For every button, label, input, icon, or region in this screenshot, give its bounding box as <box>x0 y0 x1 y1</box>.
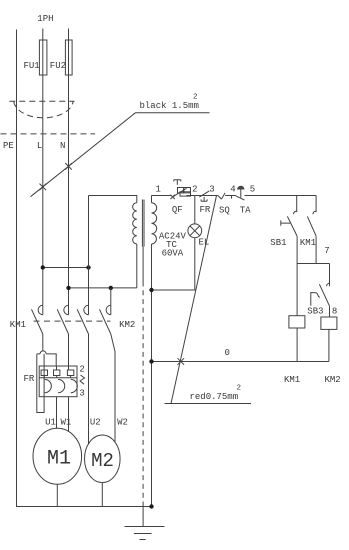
svg-text:QF: QF <box>172 205 183 215</box>
svg-text:5: 5 <box>250 185 255 195</box>
contact KM1 pole1 <box>32 305 43 334</box>
svg-text:KM1: KM1 <box>10 320 26 330</box>
svg-text:PE: PE <box>3 141 14 151</box>
transformer shield lead solid <box>142 247 144 282</box>
svg-text:60VA: 60VA <box>162 249 184 259</box>
svg-text:L: L <box>37 141 42 151</box>
wire pole1 down <box>42 334 44 351</box>
svg-text:FR: FR <box>24 374 35 384</box>
svg-text:3: 3 <box>209 185 214 195</box>
svg-text:M2: M2 <box>91 450 114 472</box>
ground <box>125 527 165 540</box>
hop arc over L <box>40 351 46 354</box>
wire KM1 coil branch <box>296 264 298 316</box>
wire pole3 down to M2 <box>88 334 90 444</box>
wire KM1 aux bottom <box>315 236 317 263</box>
wire L to transformer primary <box>43 267 89 269</box>
transformer TC secondary top lead <box>151 196 153 203</box>
wire L line top <box>42 29 44 315</box>
junction dot 0 rail <box>149 359 153 363</box>
wire SB1 branch top <box>296 196 298 213</box>
lamp EL <box>188 224 202 238</box>
thermal relay FR box <box>39 366 77 397</box>
motor M2 <box>85 435 121 483</box>
wire N line top <box>68 29 70 315</box>
contact KM2 pole1 <box>77 305 88 334</box>
junction dot N branch <box>66 286 70 290</box>
svg-text:8: 8 <box>332 307 337 317</box>
svg-text:KM2: KM2 <box>119 320 135 330</box>
wire EL branch <box>194 196 196 224</box>
contact KM1 pole2 <box>57 305 68 334</box>
wire U1 <box>56 397 58 429</box>
svg-text:FR: FR <box>200 205 211 215</box>
wire node7 <box>297 263 329 265</box>
dashed separator upper <box>9 100 74 102</box>
svg-text:KM1: KM1 <box>284 375 300 385</box>
transformer TC secondary winding <box>152 203 157 244</box>
svg-text:7: 7 <box>324 246 329 256</box>
wire N to transformer primary <box>69 287 137 289</box>
svg-text:SB1: SB1 <box>270 238 286 248</box>
coil KM2 <box>321 317 337 329</box>
breaker QF <box>170 195 174 199</box>
wire branch3 vertical <box>88 196 90 315</box>
wire EL return <box>152 238 195 290</box>
wire KM1 coil bottom <box>296 328 298 362</box>
wire W1 <box>68 397 70 432</box>
svg-text:TA: TA <box>240 206 251 216</box>
svg-text:red0.75mm: red0.75mm <box>190 392 239 402</box>
svg-text:M1: M1 <box>47 448 71 471</box>
transformer TC primary lead <box>89 196 137 203</box>
transformer TC primary bottom lead <box>136 244 138 288</box>
wire SB1 bottom <box>296 236 298 263</box>
button TA <box>237 186 244 190</box>
svg-text:FU1: FU1 <box>24 61 40 71</box>
FR trip squiggle <box>80 375 85 384</box>
contact KM1 aux <box>313 211 316 214</box>
junction dot branch4 <box>109 286 113 290</box>
svg-text:4: 4 <box>230 185 235 195</box>
fuse FU2 <box>65 40 72 75</box>
contact KM2 pole2 <box>100 305 111 334</box>
mechanical link dashed <box>34 320 111 322</box>
svg-text:KM1: KM1 <box>300 238 316 248</box>
transformer TC core <box>142 200 144 247</box>
wire KM1 aux branch top <box>315 196 317 213</box>
svg-text:SQ: SQ <box>219 206 230 216</box>
contact SQ <box>218 193 225 199</box>
wire SB3 bottom <box>329 306 331 317</box>
crossing mark on L wire <box>40 184 47 191</box>
wire branch4 vertical <box>110 288 112 315</box>
earth lead <box>142 507 144 527</box>
svg-text:3: 3 <box>79 389 84 399</box>
junction dot primary feed <box>86 265 90 269</box>
svg-text:W1: W1 <box>61 417 72 427</box>
svg-text:EL: EL <box>199 238 210 248</box>
wire KM2 coil bottom <box>328 329 330 361</box>
crossing mark on 0 rail <box>178 358 185 365</box>
crossing mark on N wire <box>65 163 72 170</box>
svg-text:W2: W2 <box>117 418 128 428</box>
svg-text:1: 1 <box>156 185 161 195</box>
wire M1 bottom <box>56 484 58 506</box>
wire control rung top <box>152 195 317 197</box>
coil KM1 <box>289 316 305 328</box>
fuse FU1 <box>39 40 47 75</box>
svg-text:0: 0 <box>225 348 230 358</box>
svg-text:2: 2 <box>193 94 198 102</box>
svg-text:2: 2 <box>192 185 197 195</box>
motor M1 <box>33 428 82 484</box>
wire PE line <box>17 30 152 507</box>
wire pole4 down to M2 <box>111 334 115 442</box>
leader line black wire <box>31 113 136 197</box>
wire pole2 down <box>68 334 70 366</box>
thermal relay FR heater1 <box>37 354 56 413</box>
junction dot EL return <box>149 288 153 292</box>
svg-text:N: N <box>60 141 65 151</box>
svg-text:black 1.5mm: black 1.5mm <box>140 101 199 111</box>
dashed separator lower <box>1 133 96 135</box>
svg-text:2: 2 <box>237 385 242 393</box>
junction dot L branch <box>41 265 45 269</box>
wire M2 bottom <box>101 483 103 507</box>
svg-text:FU2: FU2 <box>50 61 66 71</box>
button SB3 <box>327 283 330 286</box>
cable arc <box>14 102 73 118</box>
junction dot secondary to PE <box>149 504 153 508</box>
button SB1 <box>294 211 297 214</box>
svg-text:SB3: SB3 <box>307 307 323 317</box>
wire 0 rail <box>152 361 329 363</box>
svg-text:KM2: KM2 <box>325 375 341 385</box>
svg-text:1PH: 1PH <box>37 14 53 24</box>
transformer TC primary winding <box>133 203 137 244</box>
transformer shield lead dashed <box>142 282 144 507</box>
svg-text:U1: U1 <box>45 417 56 427</box>
transformer TC secondary return lead <box>151 244 153 507</box>
svg-text:U2: U2 <box>90 418 101 428</box>
leader line red wire <box>165 196 252 404</box>
svg-text:2: 2 <box>79 365 84 375</box>
contact FR (NC thermal) <box>199 191 209 197</box>
FR heater elements <box>41 370 47 376</box>
wire SB3 branch top <box>329 264 331 287</box>
